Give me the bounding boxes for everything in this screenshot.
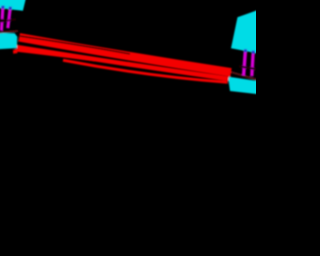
- faint wire crossing left insulators (gap): [0, 19, 16, 21]
- blue cap of insulator R2: [252, 51, 255, 54]
- right lower crossarm (cyan slab): [228, 77, 262, 95]
- insulator bar L2: [8, 7, 11, 28]
- right crossarm maroon edge line: [229, 72, 257, 80]
- left lower crossarm (cyan block): [0, 33, 17, 50]
- wire D nub (small red piece at left): [13, 49, 18, 53]
- insulator bar R2: [252, 52, 253, 77]
- left crossarm maroon edge line: [0, 31, 18, 33]
- blue cap of insulator L1: [1, 6, 4, 9]
- blue cap of insulator R1: [244, 49, 247, 52]
- left tower crossarm (top-left cyan block): [0, 0, 26, 11]
- insulator bar R1: [244, 51, 246, 76]
- wire C: [63, 60, 228, 82]
- wire D (short, merges into wire B): [15, 50, 95, 60]
- wire A (main thick conductor): [19, 37, 231, 72]
- blue cap of insulator L2: [9, 7, 12, 10]
- right tower crossarm (top-right cyan block): [231, 9, 262, 55]
- dark seam inside wire A: [20, 36, 130, 54]
- insulator bar L1: [1, 7, 3, 31]
- wire B: [17, 47, 229, 79]
- faint wire crossing right insulators (gap): [239, 66, 257, 69]
